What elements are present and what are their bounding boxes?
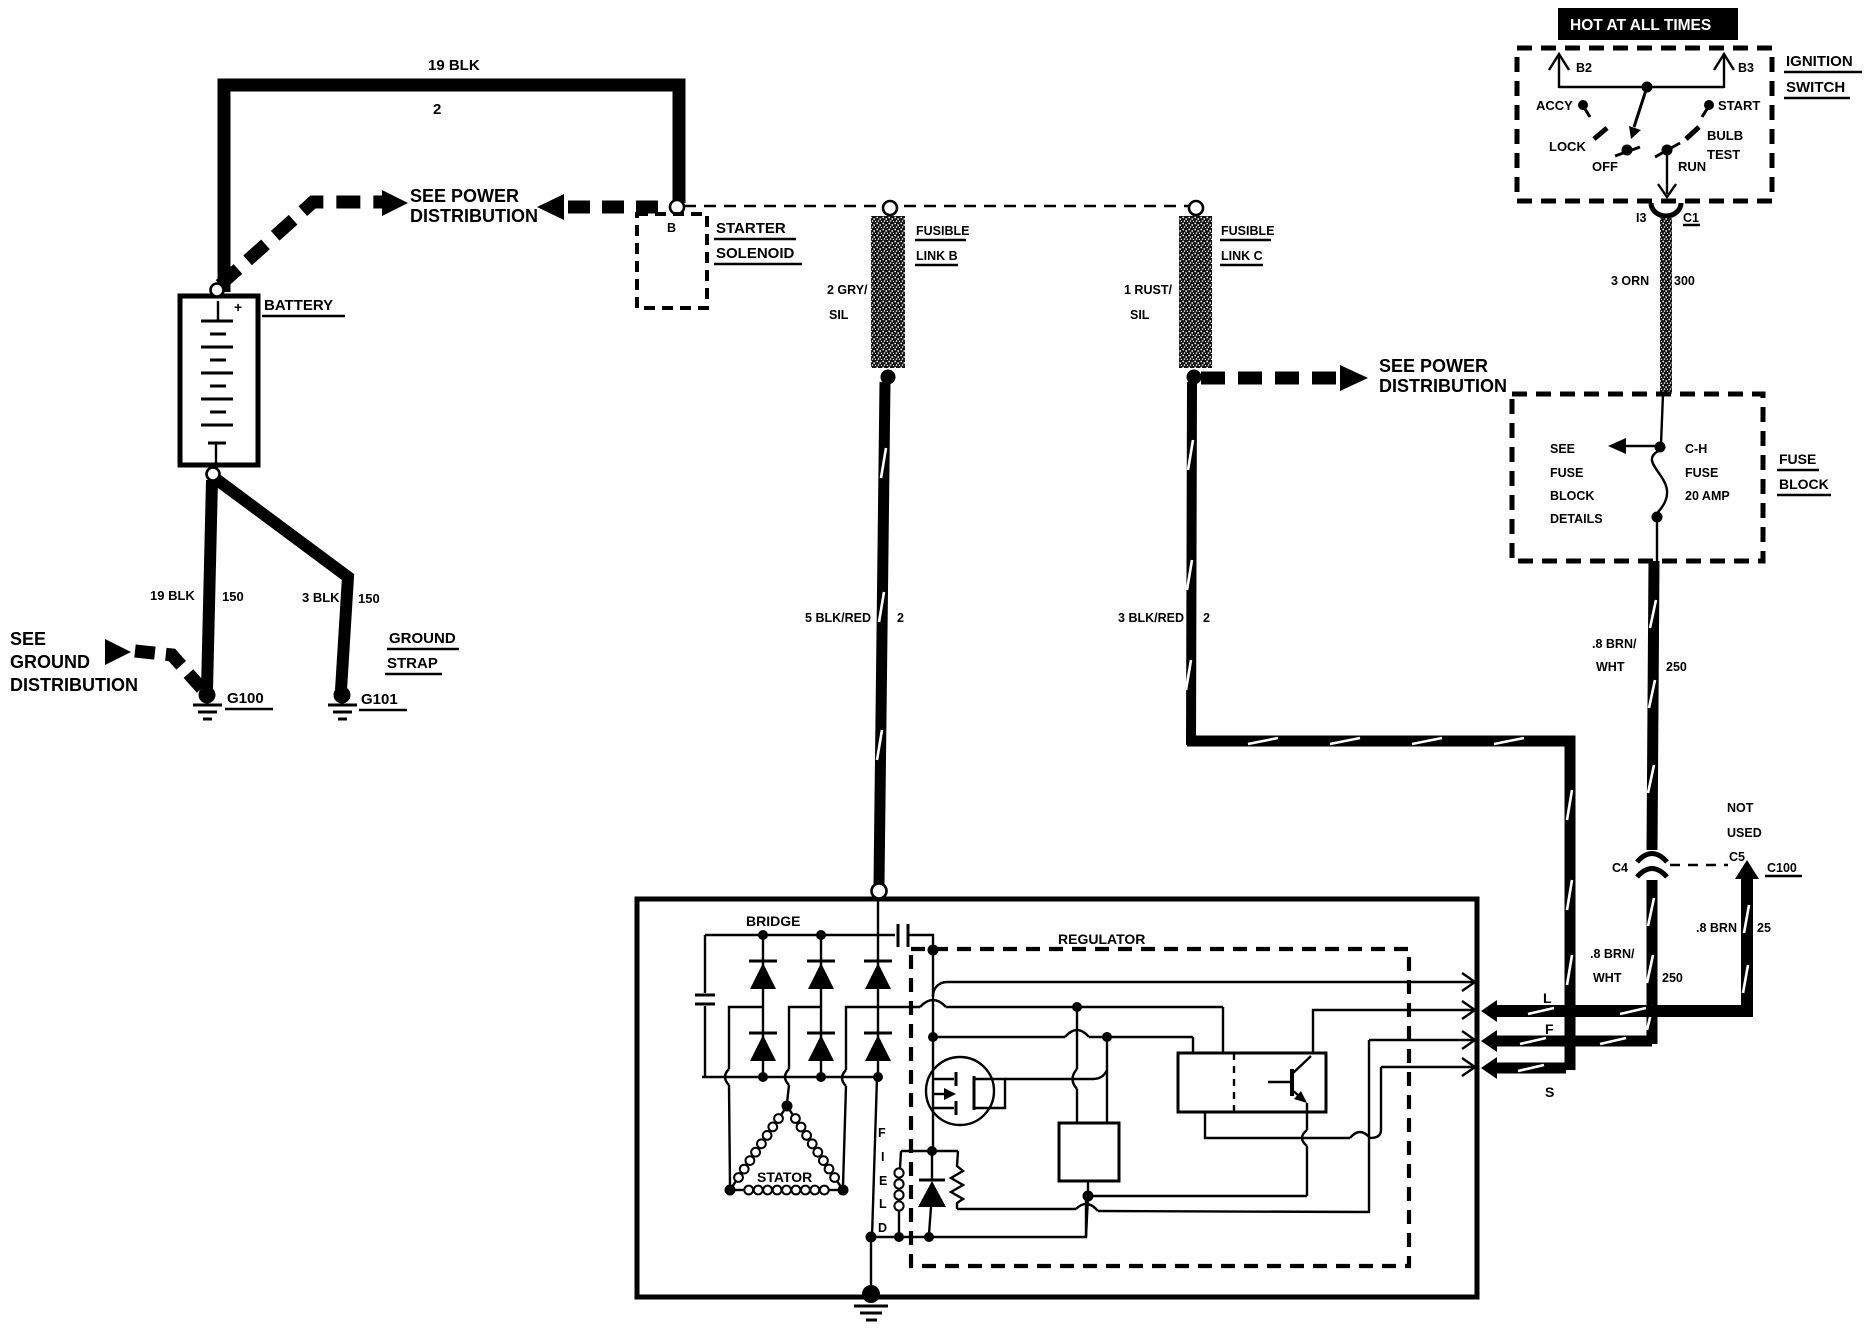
svg-text:19 BLK: 19 BLK xyxy=(150,588,195,603)
svg-text:USED: USED xyxy=(1727,826,1762,840)
svg-text:G100: G100 xyxy=(227,690,264,707)
contact BULB TEST xyxy=(1686,127,1699,139)
svg-text:B3: B3 xyxy=(1738,61,1754,75)
bridge lower rail xyxy=(702,1076,878,1078)
capacitor in rail xyxy=(897,924,900,947)
switch arm xyxy=(1634,87,1647,127)
phase wire 1 xyxy=(729,1007,763,1069)
svg-text:3 BLK: 3 BLK xyxy=(302,590,340,605)
svg-text:LINK C: LINK C xyxy=(1221,249,1263,263)
starter solenoid box xyxy=(637,214,707,308)
ground G101 xyxy=(328,687,357,720)
wire 5 BLK/RED xyxy=(879,382,885,884)
svg-text:SEE: SEE xyxy=(10,629,46,649)
wire F branch down xyxy=(1106,1037,1108,1123)
svg-text:IGNITION: IGNITION xyxy=(1786,53,1853,70)
arrow see fuse block details xyxy=(1620,445,1656,447)
field top rail xyxy=(901,1150,958,1152)
mosfet Q1 xyxy=(926,1057,1005,1125)
contact ACCY xyxy=(1578,100,1588,110)
terminal F wire xyxy=(1481,1030,1497,1052)
svg-text:19 BLK: 19 BLK xyxy=(428,57,480,74)
wire comparator to bottom rail xyxy=(1086,1196,1088,1237)
field coil xyxy=(900,1151,901,1168)
ground G100 xyxy=(193,687,222,720)
svg-text:FUSIBLE: FUSIBLE xyxy=(1221,224,1274,238)
svg-text:5 BLK/RED: 5 BLK/RED xyxy=(805,611,871,625)
wire splice run to S xyxy=(1187,741,1570,1070)
arrow from solenoid wire (left) xyxy=(537,194,564,220)
svg-text:DETAILS: DETAILS xyxy=(1550,512,1603,526)
node generator B+ terminal xyxy=(872,884,887,899)
svg-text:2: 2 xyxy=(897,611,904,625)
contact START xyxy=(1704,100,1714,110)
wire L branch down xyxy=(1073,1007,1078,1123)
svg-text:BLOCK: BLOCK xyxy=(1779,476,1829,492)
svg-text:C-H: C-H xyxy=(1685,442,1707,456)
wire 19 BLK 150 battery to G100 xyxy=(207,480,212,690)
wire F left run xyxy=(928,1030,1193,1053)
connector C1 xyxy=(1651,203,1681,216)
HOT AT ALL TIMES xyxy=(1558,8,1738,40)
field bottom rail xyxy=(871,1200,1086,1237)
contact LOCK xyxy=(1594,128,1607,139)
svg-text:I: I xyxy=(881,1150,884,1164)
node switch pivot xyxy=(1642,82,1653,93)
svg-text:BRIDGE: BRIDGE xyxy=(746,913,800,929)
svg-text:OFF: OFF xyxy=(1592,159,1618,174)
wire RUN down xyxy=(1666,155,1668,194)
wire 3 BLK/RED xyxy=(1191,382,1192,745)
contact OFF xyxy=(1622,145,1633,156)
svg-text:LOCK: LOCK xyxy=(1549,139,1586,154)
svg-text:DISTRIBUTION: DISTRIBUTION xyxy=(1379,376,1507,396)
svg-text:SEE POWER: SEE POWER xyxy=(1379,356,1488,376)
svg-text:TEST: TEST xyxy=(1707,147,1740,162)
svg-text:1 RUST/: 1 RUST/ xyxy=(1124,283,1172,297)
node B terminal xyxy=(670,200,684,214)
svg-text:STATOR: STATOR xyxy=(757,1169,812,1185)
svg-text:C100: C100 xyxy=(1767,861,1797,875)
svg-text:I3: I3 xyxy=(1636,211,1646,225)
wire .8 BRN/WHT C4 to F xyxy=(1647,880,1658,1044)
svg-text:E: E xyxy=(879,1174,887,1188)
svg-text:20 AMP: 20 AMP xyxy=(1685,489,1730,503)
ignition switch box xyxy=(1517,48,1772,201)
svg-text:SEE POWER: SEE POWER xyxy=(410,186,519,206)
connector C5/C100 arrow xyxy=(1735,860,1759,879)
svg-text:L: L xyxy=(879,1197,887,1211)
svg-text:SIL: SIL xyxy=(829,308,849,322)
wire F right run xyxy=(1369,1031,1475,1049)
comparator box U1 xyxy=(1059,1123,1119,1181)
svg-text:C5: C5 xyxy=(1729,850,1745,864)
svg-text:L: L xyxy=(1543,990,1552,1006)
svg-text:250: 250 xyxy=(1662,971,1683,985)
diode column 2 xyxy=(807,935,835,1077)
terminal B3 arrow xyxy=(1714,54,1734,88)
wire .8 BRN/WHT fuse to C4 xyxy=(1652,561,1654,850)
svg-text:FUSIBLE: FUSIBLE xyxy=(916,224,969,238)
svg-text:START: START xyxy=(1718,98,1760,113)
wire driver bottom to S xyxy=(1205,1067,1381,1138)
svg-text:SWITCH: SWITCH xyxy=(1786,79,1845,96)
svg-text:DISTRIBUTION: DISTRIBUTION xyxy=(410,206,538,226)
wire 19 BLK battery to solenoid xyxy=(224,85,679,292)
svg-text:SEE: SEE xyxy=(1550,442,1575,456)
svg-text:C1: C1 xyxy=(1683,211,1699,225)
contact RUN xyxy=(1662,145,1673,156)
capacitor left branch xyxy=(704,935,706,993)
wire battery+ dashed to power distribution xyxy=(220,202,384,285)
wire resistor to F xyxy=(957,1208,1076,1210)
svg-text:C4: C4 xyxy=(1612,861,1628,875)
phase wire 2 xyxy=(789,1007,821,1069)
svg-text:LINK B: LINK B xyxy=(916,249,958,263)
terminal S wire xyxy=(1481,1057,1497,1079)
svg-text:BLOCK: BLOCK xyxy=(1550,489,1594,503)
svg-text:NOT: NOT xyxy=(1727,801,1754,815)
svg-text:25: 25 xyxy=(1757,921,1771,935)
wire B2-B3 xyxy=(1559,86,1724,88)
wire bridge to ground xyxy=(872,1077,877,1237)
driver block U2 xyxy=(1178,1053,1326,1112)
wire mosfet to comparator xyxy=(1005,1070,1107,1079)
field resistor xyxy=(951,1151,963,1209)
node comparator output xyxy=(1087,1181,1089,1192)
stator delta xyxy=(725,1101,849,1196)
node rail dots xyxy=(758,930,768,940)
terminal B2 arrow xyxy=(1549,54,1569,88)
terminal L wire xyxy=(1481,1000,1497,1022)
diode column 1 xyxy=(749,935,777,1077)
svg-text:2: 2 xyxy=(433,101,441,118)
svg-text:+: + xyxy=(234,299,242,315)
transistor Q2 xyxy=(1268,1056,1311,1103)
svg-text:BATTERY: BATTERY xyxy=(264,297,333,314)
wire S right run xyxy=(1381,1058,1475,1076)
svg-text:2 GRY/: 2 GRY/ xyxy=(827,283,868,297)
wire dashed C4 to C5 xyxy=(1670,864,1728,866)
bridge top rail xyxy=(705,934,895,936)
svg-text:RUN: RUN xyxy=(1678,159,1706,174)
svg-text:DISTRIBUTION: DISTRIBUTION xyxy=(10,675,138,695)
battery xyxy=(180,284,258,481)
regulator box xyxy=(911,949,1409,1266)
phase wire 3 xyxy=(846,1007,878,1070)
wire dashed solenoid to fusible links xyxy=(684,205,1190,207)
svg-text:B: B xyxy=(667,221,676,235)
svg-text:FUSE: FUSE xyxy=(1685,466,1718,480)
wire emitter down xyxy=(1302,1103,1307,1196)
fuse block box xyxy=(1512,394,1763,561)
fusible link C xyxy=(1189,201,1203,215)
svg-text:.8 BRN: .8 BRN xyxy=(1696,921,1737,935)
svg-text:.8 BRN/: .8 BRN/ xyxy=(1592,637,1637,651)
svg-text:ACCY: ACCY xyxy=(1536,98,1573,113)
svg-text:F: F xyxy=(1545,1021,1554,1037)
svg-text:150: 150 xyxy=(222,589,244,604)
svg-text:REGULATOR: REGULATOR xyxy=(1058,931,1145,947)
svg-text:FUSE: FUSE xyxy=(1779,451,1816,467)
svg-text:300: 300 xyxy=(1674,274,1695,288)
svg-text:G101: G101 xyxy=(361,691,398,708)
svg-text:WHT: WHT xyxy=(1596,660,1625,674)
ground generator xyxy=(854,1285,888,1320)
wire output 1 xyxy=(933,982,1474,996)
svg-text:D: D xyxy=(878,1221,887,1235)
svg-text:FUSE: FUSE xyxy=(1550,466,1583,480)
generator box xyxy=(637,899,1477,1297)
svg-text:GROUND: GROUND xyxy=(389,630,456,647)
wire L left run xyxy=(878,1000,1223,1053)
connector C4 xyxy=(1637,854,1667,863)
arrow see ground distribution xyxy=(105,639,131,665)
fusible link B xyxy=(883,201,897,215)
wire L right run xyxy=(1313,1001,1475,1053)
svg-text:F: F xyxy=(878,1126,886,1140)
svg-text:250: 250 xyxy=(1666,660,1687,674)
svg-text:BULB: BULB xyxy=(1707,128,1743,143)
wire 3 BLK 150 battery to G101 xyxy=(216,479,348,690)
svg-text:3 ORN: 3 ORN xyxy=(1611,274,1649,288)
wire .8 BRN 25 down to L xyxy=(1494,874,1747,1011)
fuse C-H xyxy=(1652,450,1667,512)
wire into fuse xyxy=(1661,394,1663,444)
svg-text:3 BLK/RED: 3 BLK/RED xyxy=(1118,611,1184,625)
svg-text:SOLENOID: SOLENOID xyxy=(716,245,795,262)
wire dashed to G100 xyxy=(135,651,204,691)
wire sense vertical xyxy=(932,950,934,1151)
svg-text:GROUND: GROUND xyxy=(10,652,90,672)
svg-text:WHT: WHT xyxy=(1593,971,1622,985)
node regulator B+ xyxy=(928,945,939,956)
svg-text:2: 2 xyxy=(1203,611,1210,625)
svg-text:HOT AT ALL TIMES: HOT AT ALL TIMES xyxy=(1570,17,1711,34)
wire 3 ORN 300 xyxy=(1660,218,1672,394)
node fuse top xyxy=(1655,442,1666,453)
svg-text:S: S xyxy=(1545,1084,1554,1100)
wire comparator to emitter xyxy=(1088,1195,1307,1197)
svg-text:STRAP: STRAP xyxy=(387,655,438,672)
arrow to SEE POWER DISTRIBUTION (right) xyxy=(382,190,408,216)
svg-text:B2: B2 xyxy=(1576,61,1592,75)
svg-text:SIL: SIL xyxy=(1130,308,1150,322)
diode column 3 xyxy=(864,899,892,1077)
svg-text:.8 BRN/: .8 BRN/ xyxy=(1590,947,1635,961)
svg-text:150: 150 xyxy=(358,591,380,606)
wire dashed arrow to power distribution xyxy=(1201,372,1340,385)
svg-text:STARTER: STARTER xyxy=(716,220,786,237)
field diode xyxy=(918,1151,946,1234)
